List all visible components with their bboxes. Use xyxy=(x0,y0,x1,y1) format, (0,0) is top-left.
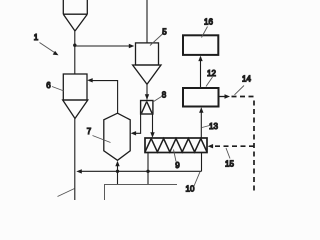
svg-text:6: 6 xyxy=(46,81,51,90)
label 8 xyxy=(153,97,162,103)
vessel 7 (hexagonal reactor) xyxy=(104,113,130,160)
box 10 right edge xyxy=(201,153,203,172)
arrow into valve 8 xyxy=(145,94,149,100)
arrow for label 1 xyxy=(53,51,59,55)
svg-text:7: 7 xyxy=(87,127,92,136)
arrow into box 12 xyxy=(199,107,203,113)
label 16 xyxy=(202,27,208,38)
wire silo outlet down xyxy=(74,31,76,74)
wire box 12 outlet (line 14) xyxy=(219,96,225,98)
cyclone 5 xyxy=(133,43,161,84)
wire main vertical pipe (cyclone 6 outlet to bottom) xyxy=(74,119,76,201)
wire return line to main pipe xyxy=(81,170,202,172)
wire valve 8 bottom-right to conveyor xyxy=(152,114,154,133)
arrow into vessel 7 bottom xyxy=(115,161,119,167)
hopper (top-left silo, cut off at top) xyxy=(63,0,87,31)
arrow into conveyor top xyxy=(150,132,154,138)
label 10 xyxy=(194,172,200,186)
dashed line 14 vertical xyxy=(253,101,255,195)
wire valve 8 bottom-left to vessel 7 xyxy=(133,114,141,133)
label 1 xyxy=(40,43,55,53)
svg-text:8: 8 xyxy=(162,91,167,100)
box 12 xyxy=(183,88,219,107)
rotary valve 8 xyxy=(141,101,153,115)
node junction dot on return line xyxy=(116,170,119,173)
box 10 left edge (conveyor discharge) xyxy=(147,153,149,185)
label 5 xyxy=(150,34,163,46)
wire cyclone 5 apex to valve 8 xyxy=(146,84,148,99)
svg-text:12: 12 xyxy=(207,69,216,78)
label 9 xyxy=(174,150,177,162)
arrow into vessel 7 right side xyxy=(131,131,137,135)
screw conveyor 9 xyxy=(145,138,207,153)
svg-text:9: 9 xyxy=(175,161,180,170)
dashed line 14 horizontal xyxy=(232,96,255,98)
label 14 xyxy=(235,86,245,95)
svg-text:16: 16 xyxy=(204,18,213,27)
label 7 xyxy=(93,136,111,143)
svg-text:15: 15 xyxy=(225,160,234,169)
arrow into main pipe xyxy=(76,169,82,173)
wire conveyor to box 12 xyxy=(200,109,202,139)
arrow into conveyor right end xyxy=(208,144,214,148)
svg-text:14: 14 xyxy=(242,75,251,84)
box 16 xyxy=(183,35,218,55)
label 15 xyxy=(226,148,230,159)
node junction dot on return line right xyxy=(146,170,149,173)
arrow into cyclone 5 xyxy=(129,44,135,48)
node junction dot xyxy=(73,44,76,47)
label 13 xyxy=(202,126,210,128)
wire lower gray pipe xyxy=(105,185,178,201)
label 6 xyxy=(52,87,64,92)
svg-text:10: 10 xyxy=(186,185,195,194)
svg-text:1: 1 xyxy=(34,33,39,42)
wire box 12 to box 16 xyxy=(200,57,202,88)
leader bottom-left (label cut off) xyxy=(58,189,75,197)
wire riser into vessel 7 bottom xyxy=(117,163,119,185)
svg-text:13: 13 xyxy=(209,122,218,131)
dashed line 15 into conveyor xyxy=(213,145,254,147)
wire junction to cyclone 5 xyxy=(75,45,130,47)
cyclone 6 xyxy=(63,74,88,119)
label 12 xyxy=(206,77,213,87)
svg-text:5: 5 xyxy=(162,28,167,37)
arrow into cyclone 6 right side xyxy=(87,78,93,82)
wire feed into cyclone 5 from top xyxy=(146,0,148,43)
arrow on line 14 xyxy=(225,94,231,98)
arrow into box 16 xyxy=(198,56,202,62)
wire vessel 7 top to cyclone 6 xyxy=(89,81,118,114)
